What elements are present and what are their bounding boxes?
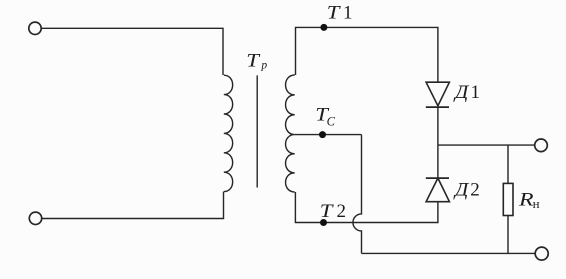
svg-text:T: T (320, 200, 334, 222)
diode D2 triangle (426, 178, 449, 202)
svg-text:н: н (533, 196, 540, 211)
diode D2 cathode bar (426, 177, 449, 179)
label Tc (315, 103, 335, 128)
label T1 (327, 1, 353, 23)
svg-text:1: 1 (471, 82, 481, 103)
resistor Rn body (503, 183, 513, 215)
secondary winding of transformer (286, 75, 295, 192)
label Tp (246, 49, 267, 71)
wire T2 run: coil bottom to diode D2 anode (295, 192, 438, 223)
node Tc dot (319, 131, 326, 138)
svg-text:2: 2 (337, 201, 347, 222)
wire Rn branch from junction (507, 145, 509, 183)
center tap vertical wire with crossover hop (353, 135, 362, 254)
bottom rail to terminal (362, 252, 536, 254)
diode D1 cathode bar (426, 106, 449, 108)
terminal top-left (29, 22, 41, 34)
terminal bottom-right (535, 247, 548, 260)
terminal top-right (535, 139, 548, 152)
wire junction down to D2 cathode (437, 145, 439, 178)
label T2 (320, 200, 346, 222)
svg-text:p: p (260, 60, 267, 72)
node T2 dot (320, 219, 327, 226)
svg-text:1: 1 (343, 3, 353, 24)
wire secondary top to diode D1 (node T1 run) (296, 27, 438, 82)
primary winding of transformer Tp (224, 75, 233, 191)
transformer core (256, 75, 258, 187)
center tap wire Tc (295, 134, 362, 136)
wire junction to terminal top-right (438, 144, 535, 146)
wire Rn bottom to rail (507, 216, 509, 254)
wire top-left to primary top (41, 28, 223, 75)
svg-text:T: T (327, 1, 341, 23)
svg-text:Д: Д (453, 179, 470, 200)
svg-text:Д: Д (453, 82, 470, 103)
svg-text:R: R (518, 189, 534, 210)
wire primary bottom to terminal bottom-left (42, 192, 224, 219)
label D2 (453, 179, 480, 200)
terminal bottom-left (29, 212, 41, 224)
svg-text:C: C (327, 115, 336, 129)
wire D1 cathode to junction (437, 107, 439, 145)
svg-text:T: T (246, 49, 260, 71)
label D1 (453, 82, 480, 103)
node T1 dot (320, 24, 327, 31)
label Rn (518, 189, 540, 211)
svg-text:2: 2 (470, 179, 480, 200)
diode D1 triangle (426, 82, 449, 106)
